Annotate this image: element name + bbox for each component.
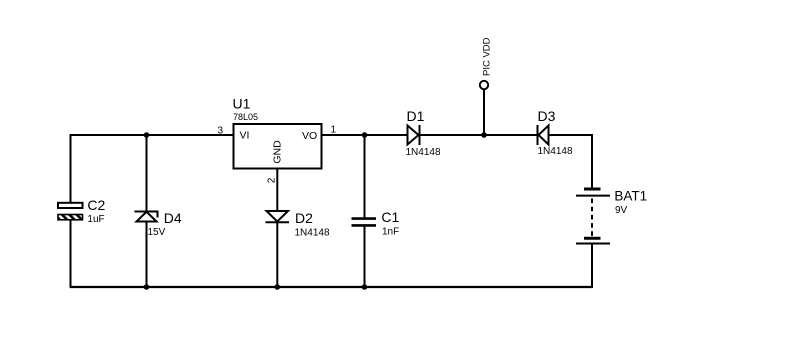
junction dot D4 top: [144, 132, 150, 138]
wire C1 lower (plate to bottom rail): [364, 226, 366, 287]
wire battery bottom to bottom rail: [591, 244, 593, 289]
zener diode D4 triangle: [137, 212, 157, 222]
battery BAT1 bottom positive long plate: [576, 243, 610, 245]
capacitor C2 bottom plate (hatched): [58, 215, 83, 220]
wire left vertical lower (C2 bottom plate to bottom rail): [70, 220, 72, 288]
D3 value label 1N4148: [538, 146, 573, 157]
U1 pin name GND (rotated): [272, 140, 284, 164]
junction dot C1 bottom: [362, 284, 368, 290]
diode D3 triangle (pointing left): [539, 126, 549, 145]
wire D1 cathode to D3 cathode: [420, 134, 538, 136]
svg-text:9V: 9V: [615, 205, 628, 216]
C2 value label 1uF: [87, 214, 104, 225]
svg-text:GND: GND: [272, 140, 284, 164]
junction dot D2 bottom: [275, 284, 281, 290]
D1 reference label: [407, 108, 425, 124]
svg-text:C1: C1: [381, 209, 399, 225]
battery BAT1 bottom negative short bar: [584, 237, 601, 240]
junction dot D4 bottom: [144, 284, 150, 290]
D1 value label 1N4148: [406, 147, 441, 158]
U1 pin number 2 (rotated): [267, 177, 278, 183]
zener diode D4 cathode bar with bent end: [135, 212, 158, 218]
U1 value label 78L05: [233, 112, 258, 122]
svg-text:1N4148: 1N4148: [406, 147, 441, 158]
diode D2 triangle (pointing down): [267, 211, 289, 222]
wire D3 anode to right corner: [549, 134, 593, 136]
junction dot PIC VDD node: [481, 132, 487, 138]
svg-text:1nF: 1nF: [382, 227, 399, 238]
svg-text:C2: C2: [87, 197, 105, 213]
D3 reference label: [538, 108, 556, 124]
D4 value label 15V: [148, 227, 166, 238]
D2 value label 1N4148: [295, 227, 330, 238]
C1 value label 1nF: [382, 227, 399, 238]
wire top rail from left corner to U1 VI pin: [70, 134, 234, 136]
wire C1 upper (top rail to plate): [364, 135, 366, 218]
wire bottom rail: [70, 286, 593, 288]
diode D2 cathode bar: [266, 221, 290, 223]
diode D3 cathode bar: [537, 125, 539, 145]
svg-text:1N4148: 1N4148: [295, 227, 330, 238]
wire D4 branch upper: [146, 134, 148, 211]
svg-text:VI: VI: [240, 130, 250, 142]
svg-text:U1: U1: [233, 96, 251, 112]
BAT1 value label 9V: [615, 205, 628, 216]
svg-text:1: 1: [331, 125, 337, 136]
wire PIC VDD terminal drop: [483, 90, 485, 136]
svg-text:2: 2: [267, 177, 278, 183]
U1 pin name VO: [302, 130, 317, 142]
svg-text:78L05: 78L05: [233, 112, 258, 122]
svg-text:D2: D2: [295, 210, 313, 226]
U1 pin number 1: [331, 125, 337, 136]
junction dot C1 top: [362, 132, 368, 138]
diode D1 cathode bar: [419, 125, 421, 145]
svg-text:VO: VO: [302, 130, 317, 142]
svg-text:1uF: 1uF: [87, 214, 104, 225]
svg-text:D3: D3: [538, 108, 556, 124]
net label PIC VDD (rotated): [482, 37, 493, 76]
diode D1 triangle (pointing right): [408, 126, 419, 145]
wire right vertical to battery top: [591, 134, 593, 188]
capacitor C1 top plate: [352, 217, 377, 220]
wire D4 branch lower: [146, 222, 148, 288]
C2 reference label: [87, 197, 105, 213]
wire D2 cathode to bottom rail: [276, 223, 278, 288]
capacitor C1 bottom plate: [352, 224, 377, 227]
svg-text:1N4148: 1N4148: [538, 146, 573, 157]
svg-text:PIC VDD: PIC VDD: [482, 37, 493, 76]
wire U1 GND pin 2 to D2 anode: [276, 168, 278, 211]
svg-text:D4: D4: [164, 210, 182, 226]
svg-text:15V: 15V: [148, 227, 166, 238]
op-amp U1 regulator body 78L05: [234, 124, 322, 169]
wire left vertical upper (top rail to C2 top plate): [70, 134, 72, 203]
U1 pin name VI: [240, 130, 250, 142]
battery BAT1 top negative short bar: [584, 188, 601, 191]
terminal PIC VDD circle: [480, 81, 488, 89]
C1 reference label: [381, 209, 399, 225]
wire U1 VO pin 1 to D1 anode: [322, 134, 408, 136]
svg-text:3: 3: [217, 126, 223, 137]
svg-text:BAT1: BAT1: [614, 189, 647, 204]
battery BAT1 dashed cell continuation: [591, 199, 593, 237]
BAT1 reference label: [614, 189, 647, 204]
U1 reference label: [233, 96, 251, 112]
U1 pin number 3: [217, 126, 223, 137]
svg-text:D1: D1: [407, 108, 425, 124]
D4 reference label: [164, 210, 182, 226]
battery BAT1 top positive long plate: [576, 195, 610, 197]
capacitor C2 top plate: [58, 203, 83, 208]
D2 reference label: [295, 210, 313, 226]
